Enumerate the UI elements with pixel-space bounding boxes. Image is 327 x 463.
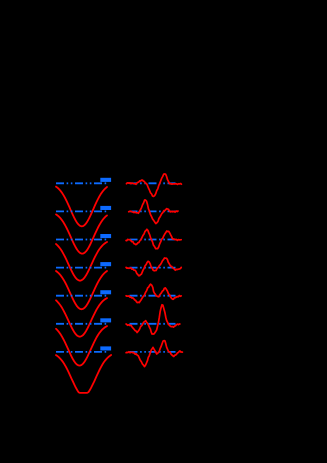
left absorption profile row 1 — [56, 187, 107, 227]
left label row 7 — [100, 346, 111, 350]
left label row 2 — [100, 206, 111, 210]
right residual curve row 2 — [129, 200, 178, 224]
left continuum line row 1 — [56, 182, 107, 184]
right residual curve row 1 — [127, 174, 182, 197]
right baseline row 7 — [130, 351, 177, 353]
left continuum line row 3 — [56, 239, 107, 241]
left absorption profile row 2 — [56, 214, 107, 253]
left absorption profile row 6 — [56, 326, 107, 366]
right baseline row 6 — [130, 323, 177, 325]
right residual curve row 3 — [126, 229, 181, 248]
right baseline row 2 — [130, 210, 177, 212]
left label row 6 — [100, 318, 111, 322]
left continuum line row 7 — [56, 351, 107, 353]
right residual curve row 4 — [126, 258, 181, 276]
left continuum line row 6 — [56, 323, 107, 325]
left continuum line row 5 — [56, 295, 107, 297]
left label row 1 — [100, 178, 111, 182]
left absorption profile row 3 — [56, 242, 107, 281]
right baseline row 5 — [130, 295, 177, 297]
right residual curve row 7 — [126, 341, 182, 367]
left absorption profile row 4 — [56, 271, 107, 309]
right residual curve row 6 — [126, 305, 180, 334]
right baseline row 3 — [130, 239, 177, 241]
right residual curve row 5 — [126, 284, 181, 302]
left label row 5 — [100, 290, 111, 294]
right baseline row 4 — [130, 267, 177, 269]
left absorption profile row 7 — [56, 355, 111, 393]
left label row 3 — [100, 234, 111, 238]
left absorption profile row 5 — [56, 298, 107, 337]
right baseline row 1 — [130, 182, 177, 184]
left continuum line row 4 — [56, 267, 107, 269]
left continuum line row 2 — [56, 210, 107, 212]
left label row 4 — [100, 262, 111, 266]
